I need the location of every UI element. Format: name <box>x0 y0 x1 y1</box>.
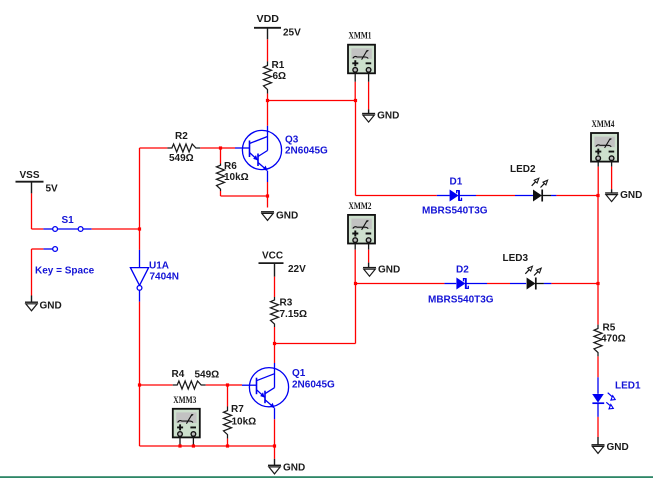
junction XMM2 node <box>354 282 357 285</box>
diode D2 MBRS540T3G <box>456 278 468 290</box>
wire XMM4 + stem black <box>597 162 599 167</box>
wire node to Q1 base <box>228 384 243 386</box>
wire left bus to R2 <box>140 147 168 149</box>
svg-text:U1A: U1A <box>149 261 169 272</box>
wire to D1 <box>356 195 437 197</box>
wire VDD stem black <box>267 28 269 40</box>
resistor R7 labels <box>231 404 256 428</box>
svg-text:XMM3: XMM3 <box>173 396 196 406</box>
junction XMM3 - <box>192 444 195 447</box>
junction Q1 emitter node <box>273 444 276 447</box>
wire XMM1 + stem black <box>354 73 356 82</box>
multimeter XMM1 <box>348 32 375 74</box>
ground GND under Q1 <box>268 462 305 474</box>
svg-text:GND: GND <box>283 462 305 473</box>
wire XMM2 GND stem <box>368 263 370 268</box>
svg-text:Q1: Q1 <box>292 368 306 379</box>
wire node to Q3 base <box>221 147 236 149</box>
junction S1 node <box>138 227 141 230</box>
resistor R1 <box>264 61 272 93</box>
LED LED1 <box>592 377 615 417</box>
wire node to R6 <box>220 148 222 164</box>
junction Q3 emitter node <box>266 194 269 197</box>
svg-text:Q3: Q3 <box>285 135 299 146</box>
power VDD bar <box>254 27 281 29</box>
svg-text:LED1: LED1 <box>615 381 641 392</box>
power VSS bar <box>16 181 44 183</box>
svg-text:D1: D1 <box>450 177 463 188</box>
transistor Q3 labels <box>285 135 328 157</box>
wire S1 to left bus <box>92 228 140 230</box>
wire D2 anode lead <box>444 283 456 285</box>
transistor Q1 2N6045G <box>242 363 289 419</box>
wire XMM4 - stem red <box>611 167 613 190</box>
wire VCC to R3 <box>274 277 276 297</box>
svg-text:R3: R3 <box>280 298 293 309</box>
svg-text:R4: R4 <box>172 369 185 380</box>
wire XMM1 GND stem <box>368 109 370 113</box>
svg-text:XMM1: XMM1 <box>349 32 372 42</box>
wire R1 to node <box>267 94 269 101</box>
svg-text:549Ω: 549Ω <box>169 153 194 164</box>
diode D1 MBRS540T3G <box>450 190 462 202</box>
wire R7 to bottom bus <box>227 439 229 446</box>
multimeter XMM4 <box>591 120 618 162</box>
svg-text:22V: 22V <box>288 264 306 275</box>
wire emitter node to GND <box>274 446 276 459</box>
wire D1 anode lead <box>437 195 450 197</box>
op-amp U1A 7404N inverter <box>130 250 148 302</box>
wire right bus to R5 <box>597 284 599 325</box>
power VCC bar <box>259 262 284 264</box>
wire R6 down <box>220 191 222 196</box>
wire node to Q3 collector <box>267 101 269 126</box>
power VDD <box>257 14 302 39</box>
svg-text:2N6045G: 2N6045G <box>285 146 328 157</box>
svg-text:S1: S1 <box>62 215 75 226</box>
wire node to Q1 collector <box>274 344 276 364</box>
wire VDD to R1 <box>267 39 269 61</box>
power VSS <box>20 170 59 195</box>
wire node to XMM1 <box>268 100 356 102</box>
resistor R5 labels <box>601 323 626 345</box>
wire VCC stem black <box>274 263 276 277</box>
inverter U1A labels <box>149 261 179 283</box>
resistor R2 <box>167 144 200 152</box>
svg-text:GND: GND <box>620 190 642 201</box>
svg-text:VCC: VCC <box>262 251 283 262</box>
svg-text:R2: R2 <box>175 131 188 142</box>
wire node to XMM2 branch <box>275 343 356 345</box>
wire LED3 cathode black <box>536 283 544 285</box>
wire D2 to LED3 <box>487 283 510 285</box>
window border line <box>0 476 653 478</box>
wire XMM4 + stem red <box>597 167 599 196</box>
wire XMM1 node down to D1 row <box>355 101 357 196</box>
wire GND stem black <box>31 296 33 303</box>
svg-text:VSS: VSS <box>20 170 40 181</box>
wire left bus lower <box>139 385 141 446</box>
junction R3 output node <box>273 342 276 345</box>
wire XMM1 - stem black <box>368 73 370 82</box>
svg-text:GND: GND <box>276 210 298 221</box>
wire GND stem black bottom <box>274 459 276 465</box>
svg-text:7404N: 7404N <box>150 272 179 283</box>
wire D1 cathode lead <box>459 195 476 197</box>
svg-text:GND: GND <box>40 301 62 312</box>
svg-text:XMM4: XMM4 <box>592 120 615 130</box>
svg-text:D2: D2 <box>456 265 469 276</box>
wire R3 to node <box>274 327 276 344</box>
wire XMM2 + stem black <box>354 244 356 250</box>
svg-text:25V: 25V <box>283 28 301 39</box>
wire XMM4 - stem black <box>611 162 613 167</box>
svg-text:10kΩ: 10kΩ <box>224 172 249 183</box>
wire XMM1 + stem red <box>354 82 356 101</box>
svg-text:R5: R5 <box>603 323 616 334</box>
svg-text:R6: R6 <box>224 161 237 172</box>
wire LED3 cathode blue <box>544 283 552 285</box>
wire bus to U1A input <box>139 229 141 250</box>
wire S1 lower throw <box>32 248 44 250</box>
wire U1A output down <box>139 302 141 385</box>
wire XMM2 - stem black <box>368 244 370 250</box>
wire left bus to R4 <box>140 384 173 386</box>
wire D1 to LED2 <box>476 195 515 197</box>
wire left bus upper <box>139 148 141 229</box>
resistor R6 <box>217 164 225 192</box>
svg-text:10kΩ: 10kΩ <box>232 417 257 428</box>
wire GND stem right <box>597 437 599 445</box>
ground GND lower-right <box>592 442 629 454</box>
svg-text:Key = Space: Key = Space <box>35 266 95 277</box>
ground GND under XMM2 <box>363 265 400 277</box>
junction XMM3 + <box>178 444 181 447</box>
svg-text:470Ω: 470Ω <box>601 334 626 345</box>
svg-text:2N6045G: 2N6045G <box>292 380 335 391</box>
transistor Q1 labels <box>292 368 335 391</box>
wire Q1 emitter down <box>274 419 276 446</box>
power VCC <box>262 251 306 276</box>
wire XMM3 - stem <box>192 437 194 446</box>
ground GND lower-left <box>25 301 62 312</box>
wire R6 to emitter node <box>221 195 268 197</box>
wire R2 to node <box>200 147 220 149</box>
svg-text:LED3: LED3 <box>503 253 529 264</box>
ground GND under XMM1 <box>362 111 399 123</box>
svg-text:VDD: VDD <box>257 14 280 25</box>
diode D1 labels <box>422 177 488 217</box>
wire XMM2 + stem red <box>354 250 356 284</box>
wire LED2 cathode blue <box>551 195 556 197</box>
wire XMM1 - stem red <box>368 82 370 110</box>
wire to D2 <box>356 283 445 285</box>
wire LED1 to GND <box>597 417 599 437</box>
svg-text:R7: R7 <box>231 404 244 415</box>
wire emitter to GND <box>267 196 269 208</box>
resistor R1 labels <box>272 60 287 82</box>
svg-text:R1: R1 <box>272 60 285 71</box>
resistor R3 labels <box>280 298 307 321</box>
svg-text:GND: GND <box>378 265 400 276</box>
wire LED2 anode lead <box>515 195 533 197</box>
multimeter XMM2 <box>348 202 375 244</box>
junction R2/R6 node <box>219 146 222 149</box>
svg-text:XMM2: XMM2 <box>349 202 372 212</box>
resistor R6 labels <box>224 161 249 183</box>
resistor R7 <box>224 407 232 439</box>
resistor R5 <box>594 325 602 357</box>
wire LED3 anode lead <box>510 283 526 285</box>
wire throw to GND <box>31 249 33 296</box>
transistor Q3 2N6045G <box>235 126 282 182</box>
wire node to R7 <box>227 385 229 407</box>
wire Q3 emitter down <box>267 182 269 196</box>
wire XMM2 - stem red <box>368 250 370 263</box>
resistor R2 labels <box>169 131 194 164</box>
wire VSS to S1 <box>32 228 44 230</box>
wire XMM2 node down to R3 node <box>355 284 357 344</box>
junction R7 bottom <box>226 444 229 447</box>
wire R4 to node <box>206 384 228 386</box>
svg-text:MBRS540T3G: MBRS540T3G <box>422 206 488 217</box>
resistor R4 <box>173 381 206 389</box>
wire XMM3 + stem <box>179 437 181 446</box>
LED LED2 <box>532 178 548 201</box>
resistor R3 <box>271 297 279 327</box>
junction LED3 node <box>596 282 599 285</box>
multimeter XMM3 <box>173 396 200 438</box>
svg-text:GND: GND <box>607 442 629 453</box>
ground GND under XMM4 <box>605 190 642 202</box>
switch S1 <box>43 215 91 251</box>
wire bottom bus <box>140 445 275 447</box>
junction R4/R7 node <box>226 383 229 386</box>
junction R1 output node <box>266 99 269 102</box>
junction XMM1 node <box>354 99 357 102</box>
LED LED3 <box>525 266 541 289</box>
wire LED2 to right bus <box>556 195 598 197</box>
wire LED2 cathode black <box>542 195 551 197</box>
ground GND under Q3 <box>261 210 298 221</box>
svg-text:MBRS540T3G: MBRS540T3G <box>428 295 494 306</box>
resistor R4 labels <box>172 369 220 381</box>
svg-text:6Ω: 6Ω <box>273 71 287 82</box>
wire R5 to LED1 <box>597 356 599 377</box>
diode D2 labels <box>428 265 494 306</box>
junction R4 node <box>138 383 141 386</box>
wire LED3 to right bus <box>551 283 598 285</box>
svg-text:5V: 5V <box>46 184 59 195</box>
wire D2 cathode lead <box>466 283 487 285</box>
wire VSS down <box>31 193 33 229</box>
wire XMM4 GND stem <box>611 189 613 193</box>
svg-text:LED2: LED2 <box>510 164 536 175</box>
svg-text:549Ω: 549Ω <box>195 370 220 381</box>
junction LED2 node <box>596 194 599 197</box>
svg-text:7.15Ω: 7.15Ω <box>280 309 307 320</box>
svg-text:GND: GND <box>377 111 399 122</box>
wire right bus upper <box>597 196 599 284</box>
wire VSS stem black <box>31 182 33 194</box>
